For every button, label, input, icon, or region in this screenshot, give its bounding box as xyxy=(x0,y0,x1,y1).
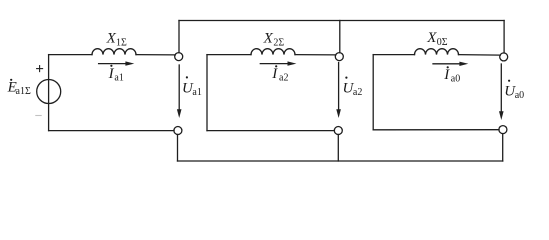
voltage arrow Ua1 xyxy=(177,65,182,118)
svg-text:I: I xyxy=(271,66,278,82)
label Ua0 xyxy=(504,80,524,101)
wire: bottom rail xyxy=(178,160,503,162)
inductor X1S coil xyxy=(92,49,136,55)
wire: loop1 bottom segment xyxy=(49,130,174,132)
svg-text:0Σ: 0Σ xyxy=(437,37,448,48)
voltage arrow Ua2 xyxy=(336,63,341,119)
svg-text:a1: a1 xyxy=(114,72,123,83)
wire: stub terminal 3a to top rail xyxy=(503,21,505,54)
wire: loop3 top-right segment to terminal 3a xyxy=(459,54,501,57)
polarity minus sign xyxy=(36,115,41,117)
wire: loop3 left vertical (x=373) xyxy=(372,55,374,130)
wire: loop2 top-left segment xyxy=(207,54,251,56)
svg-text:I: I xyxy=(443,67,450,83)
svg-text:a2: a2 xyxy=(353,87,362,98)
svg-text:a0: a0 xyxy=(451,73,460,84)
svg-text:2Σ: 2Σ xyxy=(273,37,284,48)
svg-text:a1Σ: a1Σ xyxy=(16,86,31,97)
wire: loop2 top-right segment to terminal 2a xyxy=(295,54,336,56)
voltage source E_a1S circle xyxy=(37,80,61,104)
wire: source branch vertical (x=48.6) xyxy=(48,55,50,131)
svg-text:a2: a2 xyxy=(279,73,288,84)
wire: loop3 bottom segment xyxy=(373,129,499,131)
polarity plus sign xyxy=(37,66,43,72)
label X0S xyxy=(426,30,448,48)
label Ua2 xyxy=(343,77,363,99)
wire: loop2 bottom segment xyxy=(207,130,334,132)
label Ia2 xyxy=(271,65,288,83)
node terminal 3b xyxy=(499,126,507,134)
svg-text:a1: a1 xyxy=(192,87,201,98)
wire: stub terminal 2b to bottom rail xyxy=(337,135,339,162)
wire: loop2 left vertical (x=207) xyxy=(206,55,208,131)
label Ea1S xyxy=(7,79,31,97)
svg-text:a0: a0 xyxy=(515,90,524,101)
label Ia0 xyxy=(443,66,460,84)
svg-text:X: X xyxy=(263,30,274,46)
inductor X2S coil xyxy=(251,49,295,55)
node terminal 2b xyxy=(334,127,342,135)
label X1S xyxy=(106,31,127,49)
wire: stub terminal 3b to bottom rail xyxy=(502,134,504,161)
svg-text:X: X xyxy=(106,31,117,47)
label X2S xyxy=(263,30,285,48)
node terminal 1b xyxy=(174,127,182,135)
current arrow Ia0 xyxy=(433,62,468,66)
svg-text:X: X xyxy=(426,30,437,46)
node terminal 2a xyxy=(335,53,343,61)
wire: loop3 top-left segment xyxy=(373,54,414,56)
wire: stub terminal 1b to bottom rail xyxy=(177,135,179,162)
current arrow Ia1 xyxy=(99,61,135,65)
current arrow Ia2 xyxy=(260,61,296,65)
svg-text:1Σ: 1Σ xyxy=(116,38,127,49)
node terminal 3a xyxy=(500,53,508,61)
inductor X0S coil xyxy=(415,49,459,55)
wire: top rail xyxy=(179,20,504,22)
label Ia1 xyxy=(108,65,124,84)
wire: stub terminal 2a to top rail xyxy=(339,21,341,53)
wire: loop1 top-left segment xyxy=(49,54,92,56)
wire: stub terminal 1a to top rail xyxy=(178,21,180,53)
wire: loop1 top-right segment to terminal 1a xyxy=(136,54,175,56)
voltage arrow Ua0 xyxy=(499,64,504,120)
label Ua1 xyxy=(182,76,202,98)
node terminal 1a xyxy=(175,53,183,61)
